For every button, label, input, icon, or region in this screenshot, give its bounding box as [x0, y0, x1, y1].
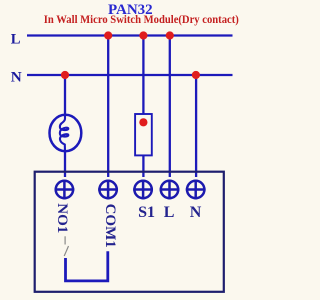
- svg-text:COM1: COM1: [102, 204, 118, 248]
- svg-text:L: L: [11, 32, 21, 48]
- svg-text:S1: S1: [138, 204, 155, 221]
- svg-text:L: L: [164, 204, 175, 221]
- svg-text:N: N: [11, 69, 22, 86]
- svg-text:N: N: [190, 204, 202, 221]
- svg-text:NO1: NO1: [54, 203, 70, 233]
- svg-text:In Wall Micro Switch Module(Dr: In Wall Micro Switch Module(Dry contact): [44, 14, 239, 26]
